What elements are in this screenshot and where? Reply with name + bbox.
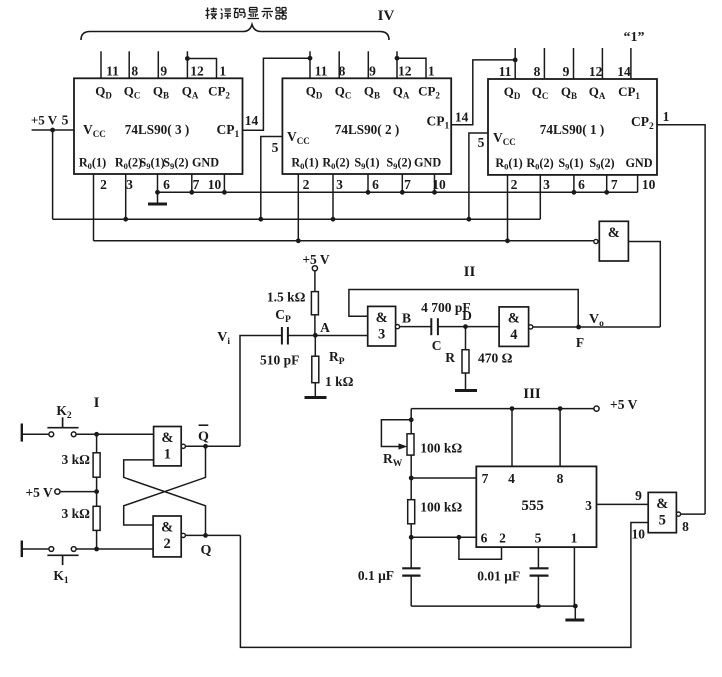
wire Vi input from flip-flop Q-bar up and right: [240, 336, 282, 447]
svg-text:3: 3: [378, 326, 385, 342]
wire: reset line R0(1) bus to gate output: [94, 240, 594, 242]
IC U2 74LS90(2) box: [282, 78, 451, 174]
svg-text:II: II: [464, 264, 476, 280]
wire cross-coupling Q-bar to gate2 upper input: [124, 446, 206, 525]
svg-text:74LS90( 3 ): 74LS90( 3 ): [125, 122, 189, 137]
wire left branch down from rail: [410, 409, 412, 434]
wire K1 left lead: [22, 548, 49, 550]
wire 555 pin1 down: [573, 547, 575, 606]
svg-text:10: 10: [642, 177, 656, 192]
svg-text:“1”: “1”: [624, 30, 645, 45]
label Q-bar: [198, 425, 209, 444]
wire: +5V rail under ICs: [53, 218, 541, 220]
svg-text:7: 7: [611, 177, 618, 192]
resistor R 470 Ohm: [462, 350, 469, 373]
svg-text:5: 5: [62, 113, 69, 128]
wire 555 pin3 output to gate5 input 9: [597, 503, 649, 505]
node: U2 QD junction: [308, 56, 313, 61]
resistor 100 kOhm lower: [408, 500, 415, 524]
wire U3 pin7 down: [191, 174, 193, 192]
wire +5V rail of 555 section: [411, 408, 594, 410]
svg-text:1: 1: [428, 64, 435, 79]
output bubble of gate 1: [181, 444, 185, 448]
svg-text:+5 V: +5 V: [610, 397, 638, 412]
svg-text:A: A: [320, 320, 330, 335]
wire U3 CP1 pin14 to U2 QD pin11: [243, 58, 311, 130]
svg-text:9: 9: [369, 64, 376, 79]
svg-text:100 kΩ: 100 kΩ: [420, 500, 462, 515]
node RW wiper tap: [409, 417, 414, 422]
wire U2 pin6 down: [367, 174, 369, 192]
svg-text:3 kΩ: 3 kΩ: [62, 452, 91, 467]
capacitor CP plates: [282, 327, 288, 345]
svg-text:S9​(2): S9​(2): [589, 156, 614, 172]
wire 555 pin5 down through 0.01uF: [537, 547, 539, 606]
node: U2 QA junction: [395, 56, 400, 61]
IC U3 top output wires QD QC QB QA (pins 11 8 9 12): [101, 51, 187, 78]
wire U2 pin2 down to reset line: [297, 174, 299, 241]
wire U2 pin10 down: [434, 174, 436, 192]
svg-text:R0​(2): R0​(2): [526, 156, 553, 172]
wire U1 pin10 down to ground bus: [637, 175, 639, 192]
IC U3 top pin number labels 11 8 9 12 1: [106, 64, 226, 79]
wire 100k to 0.1uF: [410, 524, 412, 569]
svg-text:6: 6: [481, 531, 488, 546]
wire 0.1uF to bottom line: [410, 576, 412, 607]
svg-text:2: 2: [164, 536, 171, 552]
svg-text:D: D: [462, 308, 472, 323]
svg-text:3: 3: [126, 177, 133, 192]
switch K2 actuator bar: [47, 417, 78, 427]
svg-text:10: 10: [208, 177, 222, 192]
resistor 1.5 kOhm: [311, 292, 318, 315]
svg-text:C: C: [432, 338, 442, 353]
nodes on bottom line: [536, 604, 578, 609]
wire U3 pin2 R0(1) down to reset line: [93, 174, 95, 241]
svg-text:+5 V: +5 V: [302, 252, 330, 267]
IC U2 top output wires pins 11 8 9 12: [310, 51, 397, 78]
switch K1 contacts: [49, 547, 76, 552]
output bubble of gate 2: [181, 533, 185, 537]
svg-text:3 kΩ: 3 kΩ: [62, 506, 91, 521]
wire R to ground: [465, 373, 467, 389]
svg-text:&: &: [656, 496, 668, 512]
node: U3 QA junction: [185, 56, 190, 61]
svg-text:1: 1: [571, 531, 578, 546]
node +5V mid tap: [94, 489, 99, 494]
svg-text:0.1 μF: 0.1 μF: [358, 568, 394, 583]
output bubble of gate 3: [395, 325, 399, 329]
svg-text:7: 7: [482, 471, 489, 486]
svg-text:11: 11: [499, 64, 512, 79]
wire RW wiper loop with arrow: [381, 420, 411, 450]
wire to 555 pin 7: [411, 477, 476, 479]
svg-text:III: III: [523, 386, 541, 402]
output bubble of gate 5: [676, 512, 680, 516]
wire U1 pin6 down: [573, 175, 575, 192]
svg-text:IV: IV: [378, 8, 395, 24]
svg-text:7: 7: [404, 177, 411, 192]
node Q: [203, 533, 208, 538]
svg-text:GND: GND: [192, 156, 219, 170]
IC U1 top wires pins 11 8 9 12 14: [515, 48, 631, 79]
node pin2 branch: [457, 535, 462, 540]
svg-text:14: 14: [455, 110, 469, 125]
svg-text:S9​(1): S9​(1): [354, 156, 379, 172]
svg-text:Q: Q: [201, 543, 212, 558]
wire gate1 output Q-bar to Vi riser: [185, 445, 240, 447]
wire U2 CP1 pin14 to U1 QD pin11: [451, 60, 515, 125]
svg-text:+5 V: +5 V: [31, 113, 58, 128]
svg-text:S9​(2): S9​(2): [386, 156, 411, 172]
svg-text:&: &: [161, 430, 173, 446]
wire node D down to R: [465, 327, 467, 350]
IC U2 top pin number labels 11 8 9 12 1: [315, 64, 435, 79]
capacitor 0.1 uF plates: [402, 568, 420, 575]
svg-text:S9​(1): S9​(1): [139, 156, 164, 172]
wire U1 pin7 down: [606, 175, 608, 192]
svg-text:5: 5: [659, 512, 666, 528]
svg-text:8: 8: [534, 64, 541, 79]
IC U3 74LS90(3) box: [74, 78, 243, 174]
wire +5V drop to rail: [52, 130, 54, 219]
svg-text:1: 1: [164, 447, 171, 463]
wire cross-coupling Q to gate1 lower input: [124, 460, 206, 536]
gate U&1 NAND: [154, 427, 182, 466]
svg-text:Q: Q: [198, 430, 209, 445]
svg-text:8: 8: [339, 64, 346, 79]
svg-text:6: 6: [372, 177, 379, 192]
resistor RP 1 kOhm: [312, 356, 319, 383]
svg-text:12: 12: [190, 64, 204, 79]
svg-text:S9​(1): S9​(1): [558, 156, 583, 172]
svg-text:&: &: [508, 310, 520, 326]
node F: [576, 325, 581, 330]
gate U&2 NAND: [153, 516, 181, 557]
resistor 3 kOhm upper: [93, 453, 100, 477]
svg-text:4: 4: [508, 471, 515, 486]
svg-text:1: 1: [663, 109, 670, 124]
wire C to node D to gate4: [438, 326, 499, 328]
ground symbol at ground bus: [148, 192, 167, 204]
svg-text:1 kΩ: 1 kΩ: [325, 374, 354, 389]
svg-text:R0​(1): R0​(1): [291, 156, 318, 172]
wire gate5 output to right feedback riser: [681, 513, 706, 515]
svg-text:100 kΩ: 100 kΩ: [420, 441, 462, 456]
svg-text:3: 3: [585, 498, 592, 513]
labels U2 bottom pin numbers 2 3 6 7 10: [303, 177, 446, 192]
ground symbol below RP: [305, 396, 327, 399]
labels U3 bottom pin numbers 2 3 6 7 10: [100, 177, 221, 192]
svg-text:9: 9: [563, 64, 570, 79]
wire 555 pin4 from rail: [511, 409, 513, 467]
svg-text:7: 7: [193, 177, 200, 192]
wire reset gate input from F node: [628, 242, 660, 328]
wire 555 pin8 from rail: [559, 409, 561, 467]
wire gate4 output to F node and right: [533, 326, 661, 328]
wire U2 pin3 down to +5V rail: [332, 174, 334, 219]
svg-text:5: 5: [272, 140, 279, 155]
svg-text:12: 12: [589, 64, 603, 79]
node: U1 QD junction: [513, 58, 518, 63]
svg-text:S9​(2): S9​(2): [163, 156, 188, 172]
switch K2 chassis bar: [21, 424, 23, 442]
nodes on reset line: [296, 238, 510, 243]
wire U1 pin2 down to reset line: [507, 175, 509, 241]
ground symbol below pin 1: [565, 606, 584, 620]
svg-text:9: 9: [160, 64, 167, 79]
switch K2 contacts: [49, 432, 76, 437]
+5V terminal (section III): [594, 406, 599, 411]
svg-text:&: &: [161, 520, 173, 536]
svg-text:B: B: [402, 311, 411, 326]
wire U1 CP2 pin1 right and down to gate 5 output (long feedback): [657, 125, 705, 514]
capacitor C plates (4700 pF): [431, 318, 438, 335]
wire RP to ground: [314, 383, 316, 396]
wire RW to pin7 node: [410, 455, 412, 500]
labels U1 bottom pin numbers 2 3 6 7 10: [511, 177, 656, 192]
+5V terminal of section II: [312, 266, 317, 271]
node D: [463, 324, 468, 329]
wire resistor chain vertical: [96, 434, 98, 453]
svg-text:R0​(2): R0​(2): [322, 156, 349, 172]
svg-text:14: 14: [617, 64, 631, 79]
node K1/resistor junction: [94, 547, 99, 552]
wire U1 pin3 down to +5V rail: [539, 175, 541, 219]
svg-text:1.5 kΩ: 1.5 kΩ: [267, 290, 306, 305]
svg-text:&: &: [608, 225, 620, 241]
wire K2 left lead: [22, 433, 49, 435]
node: +5V tap: [50, 128, 55, 133]
svg-text:&: &: [376, 310, 388, 326]
switch K1 chassis bar: [21, 541, 23, 558]
wire to 555 pin 6: [411, 536, 476, 538]
wire node A down to RP: [314, 336, 316, 357]
wire 1.5k to node A: [314, 315, 316, 336]
svg-text:R0​(1): R0​(1): [79, 156, 106, 172]
svg-text:12: 12: [398, 64, 412, 79]
wire feedback from F to gate3 upper input: [349, 290, 578, 328]
wire QA to CP2 bridge of U2: [397, 58, 426, 78]
svg-text:2: 2: [511, 177, 518, 192]
svg-text:9: 9: [635, 488, 642, 503]
wire K2 to gate1 input: [76, 433, 154, 435]
output bubble of reset gate: [594, 239, 598, 243]
svg-text:11: 11: [315, 64, 328, 79]
svg-text:F: F: [576, 335, 584, 350]
+5V terminal (section I): [55, 489, 60, 494]
svg-text:510 pF: 510 pF: [260, 353, 299, 368]
wire gate2 output Q right: [185, 534, 240, 536]
wire +5V terminal to junction: [60, 491, 97, 493]
wire U3 pin10 down: [223, 174, 225, 192]
svg-text:10: 10: [632, 527, 646, 542]
svg-text:GND: GND: [625, 156, 652, 170]
potentiometer RW 100 kOhm: [407, 434, 414, 455]
wire CP to node A to gate3 input: [288, 335, 368, 337]
svg-text:I: I: [94, 395, 100, 411]
wire gate3 output B to capacitor C: [400, 326, 432, 328]
wire U3 pin6 down: [157, 174, 159, 192]
svg-text:5: 5: [478, 135, 485, 150]
svg-text:555: 555: [521, 498, 544, 514]
switch K1 actuator bar: [47, 555, 78, 565]
gate U6 (&) reset NAND facing left: [599, 221, 628, 261]
wire pin6 to pin2 jumper: [459, 537, 502, 559]
svg-text:3: 3: [543, 177, 550, 192]
wire QA to CP2 bridge of U3: [187, 59, 216, 79]
nodes on +5V rail: [123, 217, 471, 222]
svg-text:R0​(1): R0​(1): [495, 156, 522, 172]
svg-text:8: 8: [557, 471, 564, 486]
IC U1 74LS90(1) box: [488, 79, 657, 175]
svg-text:2: 2: [499, 531, 506, 546]
svg-text:74LS90( 1 ): 74LS90( 1 ): [540, 122, 604, 137]
capacitor 0.01 uF plates: [530, 568, 549, 575]
gate U&5 NAND: [648, 492, 676, 532]
label: brace to decoder-display (接译码显示器): [206, 8, 288, 20]
svg-text:11: 11: [106, 64, 119, 79]
svg-text:74LS90( 2 ): 74LS90( 2 ): [335, 122, 399, 137]
wire Q down along bottom to gate5 input 10: [240, 523, 648, 648]
wire U2 pin7 down: [401, 174, 403, 192]
node K2/resistor junction: [94, 432, 99, 437]
wire bottom line of 555 section: [411, 605, 575, 607]
svg-text:470 Ω: 470 Ω: [478, 351, 513, 366]
node pin6 tap: [409, 535, 414, 540]
svg-text:GND: GND: [414, 156, 441, 170]
svg-text:2: 2: [100, 177, 107, 192]
wire: ground bus under ICs: [158, 191, 638, 193]
svg-text:14: 14: [245, 113, 259, 128]
wire U2 VCC pin5 to +5V rail: [261, 137, 283, 220]
svg-text:R: R: [445, 350, 455, 365]
svg-text:R0​(2): R0​(2): [115, 156, 142, 172]
IC 555 box: [476, 466, 596, 547]
nodes on ground bus: [155, 190, 609, 195]
gate U&3 NAND: [368, 306, 396, 346]
svg-text:3: 3: [336, 177, 343, 192]
resistor 3 kOhm lower: [93, 506, 100, 530]
svg-text:10: 10: [432, 177, 446, 192]
node pin7 tap: [409, 476, 414, 481]
svg-text:6: 6: [578, 177, 585, 192]
wire +5V to R 1.5k: [314, 271, 316, 292]
ground symbol below R: [455, 389, 477, 392]
svg-text:8: 8: [682, 519, 689, 534]
brace over display outputs: [81, 25, 389, 41]
wire K1 to gate2 input: [76, 548, 153, 550]
wire lower resistor to K1 line: [96, 530, 98, 549]
node A: [313, 333, 318, 338]
IC U1 top pin number labels 11 8 9 12 14: [499, 64, 631, 79]
output bubble of gate 4: [529, 325, 533, 329]
svg-text:4: 4: [510, 327, 517, 343]
svg-text:6: 6: [163, 177, 170, 192]
svg-text:2: 2: [303, 177, 310, 192]
svg-text:0.01 μF: 0.01 μF: [477, 569, 520, 584]
svg-text:1: 1: [219, 64, 226, 79]
wire +5V to U3 VCC pin 5: [32, 129, 74, 131]
svg-text:8: 8: [131, 64, 138, 79]
wire U3 pin3 R0(2) down to +5V rail: [125, 174, 127, 219]
svg-text:5: 5: [535, 531, 542, 546]
node Q-bar: [203, 444, 208, 449]
nodes on 555 +5V rail: [510, 406, 563, 411]
svg-text:+5 V: +5 V: [25, 485, 53, 500]
gate U&4 NAND: [499, 307, 528, 347]
wire between resistors: [96, 477, 98, 506]
wire U1 VCC pin5 to +5V rail: [469, 133, 488, 219]
